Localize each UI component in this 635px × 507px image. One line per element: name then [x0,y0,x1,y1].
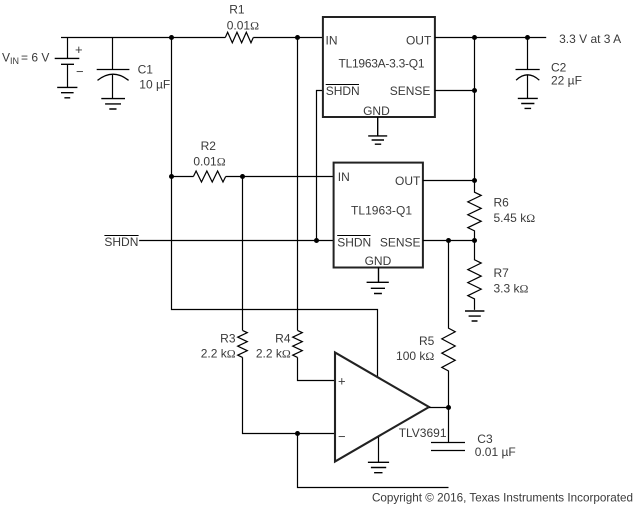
svg-text:GND: GND [365,254,392,268]
wire R2 row to IN of U2 [172,176,334,178]
resistor R3 [238,330,248,357]
node K output junction [446,405,451,410]
svg-text:3.3 kΩ: 3.3 kΩ [494,281,529,295]
svg-text:V: V [2,51,10,65]
svg-text:10 µF: 10 µF [139,77,170,91]
svg-text:3.3 V at 3 A: 3.3 V at 3 A [559,32,621,46]
wire feedback bottom run [298,434,449,488]
node E SENSE1 junction [472,88,477,93]
svg-text:0.01Ω: 0.01Ω [227,19,259,33]
svg-text:SHDN: SHDN [104,235,138,249]
ground below R7 [465,311,484,321]
regulator U2 box [334,163,423,268]
battery V1 stub [67,38,69,59]
node H R5 top junction [446,238,451,243]
svg-text:R1: R1 [229,3,245,17]
battery V1 lower stub [67,64,69,87]
svg-text:TLV3691: TLV3691 [399,426,447,440]
svg-text:−: − [338,429,346,444]
node R2 right junction [240,174,245,179]
wire SHDN rail [139,240,334,242]
resistor R7 [468,241,481,310]
svg-text:R7: R7 [494,266,510,280]
op-amp ground stub [378,437,380,462]
wire R2 output down through R3 [242,177,244,331]
resistor R1 [225,32,253,43]
svg-text:R5: R5 [419,334,435,348]
svg-text:OUT: OUT [395,174,421,188]
svg-text:R6: R6 [494,195,510,209]
capacitor C2 plates [516,69,540,71]
svg-text:2.2 kΩ: 2.2 kΩ [256,346,291,360]
ground below battery [57,87,77,97]
regulator U1 box [323,17,435,117]
wire U1 SENSE [435,90,475,92]
svg-text:−: − [76,64,84,79]
capacitor C1 stub [112,38,114,70]
wire top rail from source to regulator inputs [61,37,323,39]
wire op-amp output [429,407,449,409]
svg-text:IN: IN [338,170,350,184]
wire R3 bottom to inverting input [243,357,336,433]
node D C2 junction [525,35,530,40]
wire R1 output down through R4 [297,38,299,331]
ground below U2 GND [367,268,389,294]
svg-text:Copyright © 2016, Texas Instru: Copyright © 2016, Texas Instruments Inco… [372,491,633,505]
ground below C1 [101,99,125,109]
svg-text:IN: IN [326,33,338,47]
svg-text:R4: R4 [275,332,291,346]
node R2 left junction [169,174,174,179]
node I R6 R7 junction [472,238,477,243]
ground below C2 [518,98,538,108]
capacitor C1 lower stub [112,75,114,98]
battery V1 plates [55,58,80,64]
svg-text:GND: GND [363,104,390,118]
svg-text:5.45 kΩ: 5.45 kΩ [494,211,536,225]
wire U1 OUT to output node [435,37,546,39]
op-amp U3 [335,353,429,462]
svg-text:SENSE: SENSE [380,235,421,249]
resistor R2 [193,171,225,182]
svg-text:+: + [338,373,346,388]
svg-text:SHDN: SHDN [326,84,360,98]
svg-text:0.01 µF: 0.01 µF [475,445,516,459]
svg-text:0.01Ω: 0.01Ω [193,155,225,169]
capacitor C2 stub [527,38,529,70]
svg-text:R3: R3 [220,332,236,346]
wire U2 SENSE [423,240,475,242]
capacitor C1 plates [97,69,130,71]
resistor R6 [468,181,481,241]
svg-text:OUT: OUT [406,33,432,47]
ground below op-amp [368,462,389,472]
svg-text:100 kΩ: 100 kΩ [396,349,434,363]
svg-text:2.2 kΩ: 2.2 kΩ [201,346,236,360]
wire R4 bottom to non-inverting input [298,357,336,380]
node J inverting input junction [295,431,300,436]
node A junction rail to R2/op-amp supply [169,35,174,40]
resistor R4 [293,330,303,357]
wire SHDN to U1 pin [317,91,323,241]
resistor R5 [442,241,455,408]
svg-text:C2: C2 [551,61,567,75]
svg-text:IN: IN [10,56,19,66]
node C OUT junction [472,35,477,40]
svg-text:TL1963A-3.3-Q1: TL1963A-3.3-Q1 [339,56,425,70]
wire VIN vertical to op-amp supply [172,38,378,378]
capacitor C3 plates [431,443,465,451]
node SHDN junction to U1 [314,238,319,243]
svg-text:TL1963-Q1: TL1963-Q1 [351,203,412,217]
svg-text:22 µF: 22 µF [551,73,582,87]
node B junction rail to R4 chain [295,35,300,40]
svg-text:= 6 V: = 6 V [21,51,49,65]
svg-text:SHDN: SHDN [337,235,371,249]
capacitor C2 lower stub [527,75,529,98]
capacitor C3 stub [448,408,450,443]
wire OUT down to sense chain [474,38,476,181]
svg-text:SENSE: SENSE [390,84,431,98]
svg-text:C1: C1 [138,63,154,77]
ground below U1 GND [368,117,387,144]
svg-text:+: + [75,42,83,57]
wire U2 OUT [423,180,475,182]
svg-text:R2: R2 [201,139,217,153]
node G OUT2 junction [472,178,477,183]
